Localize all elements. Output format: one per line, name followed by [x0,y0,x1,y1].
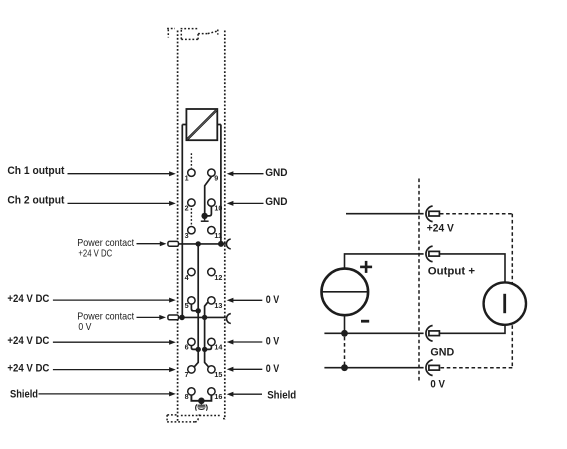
internal ground symbol stub [204,219,206,221]
junction dot 0V rail/bus B [202,315,207,320]
svg-text:8: 8 [185,392,189,401]
power contact 0V rail wire [179,316,226,318]
svg-text:0 V: 0 V [266,336,280,348]
contact circle 14 [208,338,215,345]
terminal contact arc Output+ [426,246,433,262]
svg-text:12: 12 [214,273,222,282]
svg-text:Output +: Output + [428,265,476,277]
wire contact 9 to internal ground [205,177,212,214]
contact circle 8 [188,388,195,395]
svg-text:5: 5 [185,301,189,310]
arrow shaft Shield right [232,393,263,395]
junction dot rail/bus A [196,241,201,246]
svg-text:0 V: 0 V [266,363,280,375]
terminal housing dashed outline: right border [224,31,226,420]
svg-text:3: 3 [185,231,189,240]
arrow shaft 0V row6 [232,341,263,343]
contact circle 16 [208,388,215,395]
svg-text:GND: GND [265,167,287,179]
ferrule lug 0V [429,365,440,370]
svg-text:16: 16 [214,392,222,401]
svg-text:+24 V DC: +24 V DC [78,248,112,259]
contact pin numbers [185,174,223,402]
terminal housing dashed outline: top notch profile [181,29,218,40]
svg-text:4: 4 [185,273,189,282]
arrowheads pointing left (right side) [227,171,234,176]
contact circle 13 [208,297,215,304]
terminal inner body: right solid border [220,125,222,244]
arrow shaft 0V row5 [232,299,263,301]
arrow shaft power contact +24V [137,243,162,245]
contact circle 10 [208,199,215,206]
terminal inner body: left solid border [181,125,183,318]
+24V supply wire [346,213,424,215]
svg-text:15: 15 [214,370,222,379]
junction dot shield node [198,398,205,405]
contact circle 9 [208,169,215,176]
plus sign at source [360,261,372,273]
arrow shaft Ch 1 output [53,174,171,300]
svg-text:0 V: 0 V [430,379,445,391]
contact 14 tail wire [207,346,211,350]
arrow shaft +24 V DC row5 [53,299,171,301]
power contact +24V rail wire [179,243,226,245]
svg-text:2: 2 [185,203,189,212]
svg-text:1: 1 [185,174,189,183]
ammeter circle [484,282,526,324]
shield earth symbol [196,404,208,411]
dashed branch wire down right side [511,214,513,368]
contact circle 4 [188,268,195,275]
contact circle 2 [188,199,195,206]
junction dot 0V [341,364,348,371]
arrow shaft Shield left [39,393,171,395]
contact circle 7 [188,366,195,373]
svg-text:Ch 1 output: Ch 1 output [7,165,64,177]
svg-text:Shield: Shield [267,389,296,401]
ferrule lug Output+ [429,251,440,256]
contact circle 12 [208,268,215,275]
terminal contact arc 0V [426,360,433,376]
terminal housing dashed outline: left border [177,31,179,423]
junction dot bus B / contact 14 [202,347,207,352]
svg-text:Ch 2 output: Ch 2 output [7,195,64,207]
junction dot bus A / contact 5 [196,308,201,313]
svg-text:0 V: 0 V [78,322,91,333]
source diameter line [322,291,368,293]
svg-text:+24 V DC: +24 V DC [7,335,49,347]
svg-text:+24 V: +24 V [427,222,454,234]
arrow shaft GND row2 [232,202,264,204]
power contact 0V spring arc [227,314,231,324]
dashed wire +24V to ammeter branch [440,213,512,215]
GND wire [324,332,423,334]
arrow shaft 0V row7 [232,368,263,370]
arrow shaft power contact 0V [137,316,162,318]
svg-text:Power contact: Power contact [77,311,134,322]
terminal contact arc GND [426,326,433,342]
svg-text:Shield: Shield [10,389,38,401]
junction dot rail/right border [218,241,224,247]
internal bus wire B (from contact 13 down to contact 15) [205,302,209,366]
power contact +24V spring arc [226,239,230,249]
svg-text:10: 10 [214,203,222,212]
labels and arrows drawn below [39,174,264,395]
junction dot bus A / contact 6 [196,347,201,352]
ammeter I bar [503,294,506,313]
terminal housing dashed outline: bottom profile [167,415,225,422]
svg-text:Power contact: Power contact [77,238,134,249]
svg-text:14: 14 [214,343,222,352]
dashed stub between contact 2 and contact 3 [190,208,192,225]
arrow shaft +24 V DC row6 [53,341,171,343]
terminal contact arc +24V [426,206,433,222]
contact 6 tail wire [191,346,196,350]
ferrule lug +24V [429,211,440,216]
dashed stub above contact 1 [190,153,192,168]
contact circle 15 [208,366,215,373]
dashed stub between GND and 0V junctions [344,337,346,365]
junction dot 0V rail/left border [179,315,185,321]
ferrule lug GND [429,331,440,336]
dashed wire from 0V lug to branch corner [441,367,513,369]
voltage source circle [322,269,369,316]
arrow shaft +24 V DC row7 [53,369,171,371]
contact circle 6 [188,338,195,345]
junction dot ground node [201,213,207,219]
power contact +24V lug [168,241,179,246]
contact circle 3 [188,227,195,234]
source bottom stem [344,315,346,333]
svg-text:7: 7 [185,370,189,379]
contact circle 5 [188,297,195,304]
terminal inner body: top shoulders [182,124,221,126]
arrow shaft GND row1 [232,173,264,175]
contact circle 1 [188,169,195,176]
svg-text:+24 V DC: +24 V DC [7,293,49,305]
svg-text:GND: GND [430,346,454,358]
internal ground symbol bar [201,220,209,222]
minus sign at source [361,320,369,323]
power contact 0V lug [168,315,179,320]
0V wire [324,367,423,369]
wire GND to ammeter bottom [440,325,505,334]
svg-text:11: 11 [214,231,222,240]
contact circle 11 [208,227,215,234]
electrical isolation square U1 [186,109,217,140]
terminal housing dashed outline: left ear [167,29,175,38]
wire Output+ to ammeter [440,254,505,283]
arrowheads pointing right (left side) [169,171,176,176]
svg-text:6: 6 [185,343,189,352]
junction dot source minus / GND [341,330,348,337]
shield bar wire between contacts 8 and 16 [191,395,211,401]
svg-text:9: 9 [214,174,218,183]
svg-text:13: 13 [214,301,222,310]
wire contact 10 to internal ground [206,207,212,216]
dashed terminal boundary line [418,179,420,381]
Output+ wire from source to terminal [345,254,424,269]
contact 5 tail wire [191,304,196,311]
svg-text:GND: GND [265,196,287,208]
internal bus wire A (from +24V rail down to contact 7) [194,244,198,367]
svg-text:0 V: 0 V [266,294,280,306]
arrow shaft Ch 2 output [68,202,171,204]
svg-text:+24 V DC: +24 V DC [7,362,49,374]
